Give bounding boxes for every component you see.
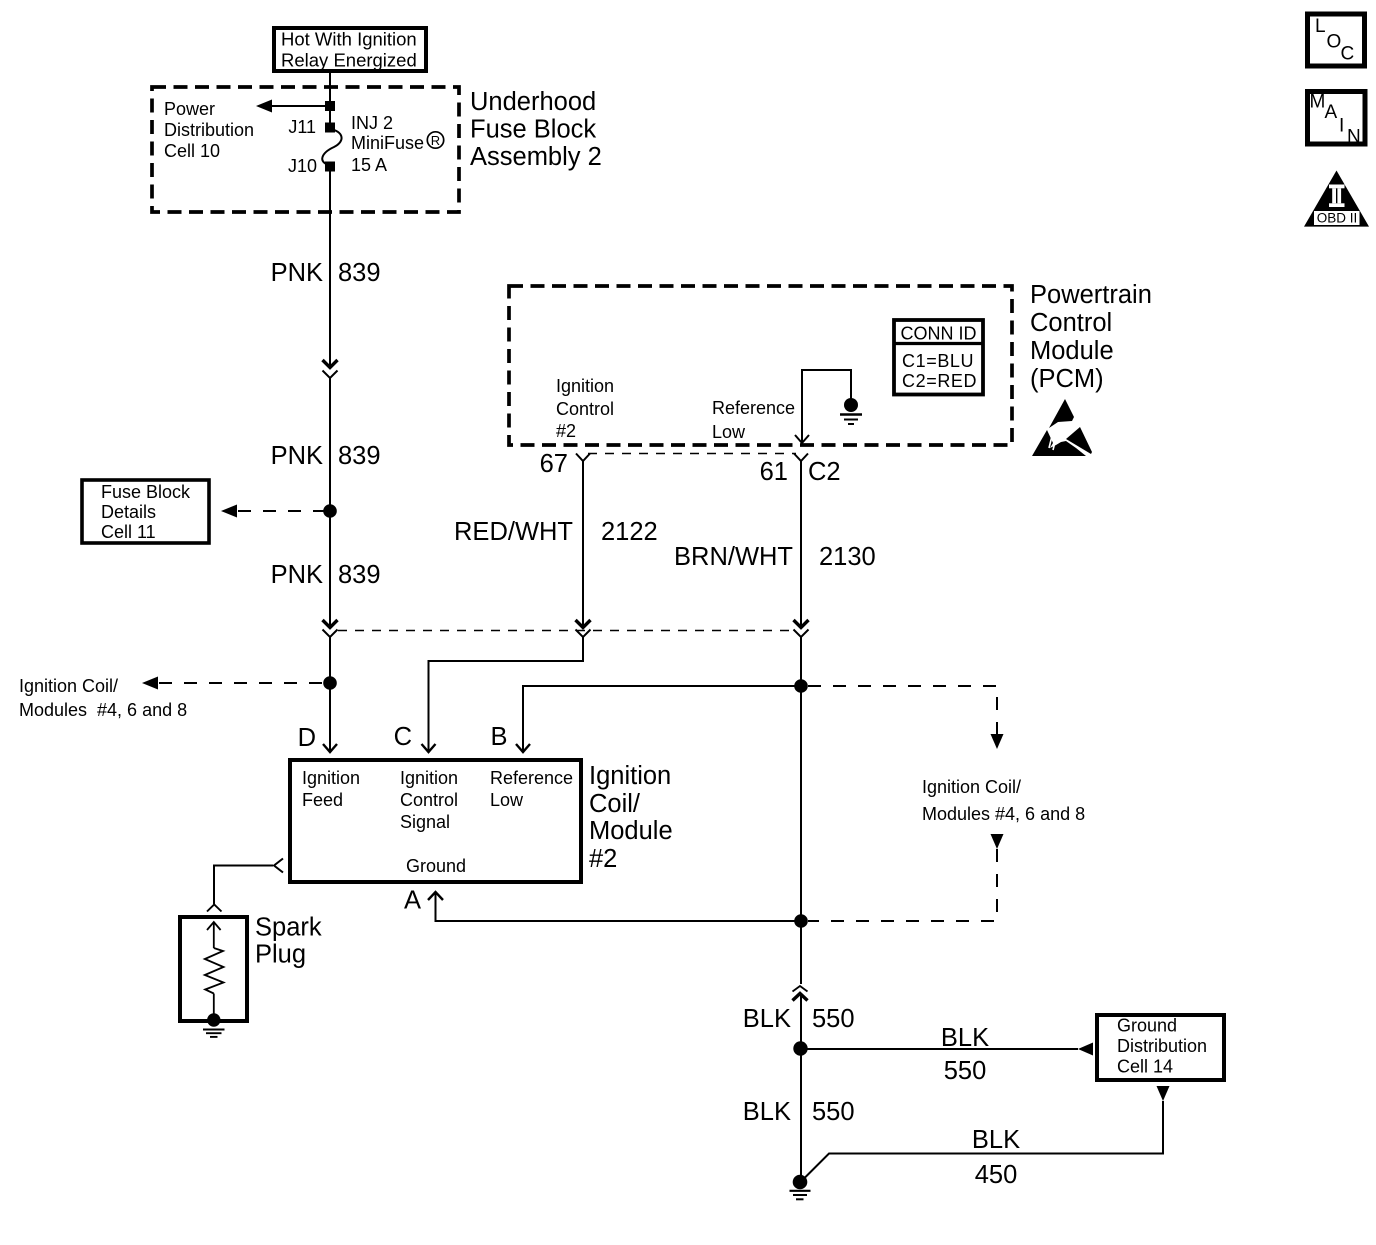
- dashed wire to fuse block details: [238, 510, 330, 512]
- svg-text:L: L: [1315, 16, 1326, 37]
- svg-text:D: D: [298, 724, 316, 752]
- inline connector chevron (female): [323, 371, 338, 379]
- svg-text:Distribution: Distribution: [1117, 1036, 1207, 1056]
- svg-text:Fuse Block: Fuse Block: [470, 116, 596, 144]
- inline connector chevron BRN/WHT: [794, 630, 809, 638]
- svg-text:Assembly 2: Assembly 2: [470, 143, 602, 171]
- svg-text:#2: #2: [589, 845, 617, 873]
- svg-text:PNK: PNK: [271, 442, 323, 470]
- wire from coil to spark plug: [214, 866, 273, 905]
- ESD symbol: [1049, 399, 1074, 428]
- svg-text:C: C: [394, 723, 412, 751]
- svg-text:Modules #4, 6 and 8: Modules #4, 6 and 8: [922, 804, 1085, 824]
- junction to ignition coil modules 4,6,8: [323, 676, 337, 690]
- svg-text:J11: J11: [288, 117, 316, 137]
- inline connector arrow BRN/WHT: [794, 620, 809, 628]
- svg-text:839: 839: [338, 259, 381, 287]
- inline connector chevron RED/WHT: [576, 630, 591, 638]
- LOC icon box: [1308, 14, 1365, 66]
- dashed wire down from modules text: [808, 849, 997, 921]
- terminal J11: [325, 123, 335, 133]
- pin B arrowhead: [516, 744, 530, 752]
- svg-text:Reference: Reference: [712, 398, 795, 418]
- svg-text:INJ 2: INJ 2: [351, 113, 393, 133]
- terminal J10: [325, 162, 335, 172]
- svg-text:PNK: PNK: [271, 561, 323, 589]
- svg-text:RED/WHT: RED/WHT: [454, 518, 573, 546]
- svg-text:Ignition: Ignition: [302, 768, 360, 788]
- svg-text:J10: J10: [288, 156, 317, 176]
- PCM internal ground dot: [844, 398, 858, 412]
- wire into pin D: [329, 683, 331, 752]
- wire branch to power distribution arrow: [270, 105, 330, 107]
- PCM internal reference low wire: [802, 370, 851, 443]
- svg-text:BLK: BLK: [972, 1126, 1020, 1154]
- svg-text:BLK: BLK: [941, 1024, 989, 1052]
- wire BRN/WHT junction to ground junction: [800, 686, 802, 921]
- wire BLK 550 down from A junction: [800, 921, 802, 984]
- ignition coil module 2 box: [290, 760, 581, 882]
- arrow to fuse block details: [221, 505, 237, 518]
- svg-text:C2: C2: [808, 458, 841, 486]
- OBD II icon triangle: [1304, 171, 1369, 227]
- svg-text:C: C: [1341, 44, 1355, 65]
- svg-text:O: O: [1327, 32, 1342, 53]
- wire PNK 839 from fuse down: [329, 166, 331, 367]
- svg-text:Underhood: Underhood: [470, 88, 596, 116]
- junction to fuse block details: [323, 504, 337, 518]
- svg-text:MiniFuse: MiniFuse: [351, 133, 424, 153]
- svg-text:BLK: BLK: [743, 1098, 791, 1126]
- inline connector arrow up: [793, 994, 808, 1001]
- inline harness dashed line: [338, 630, 794, 632]
- junction BRN/WHT at B branch: [794, 679, 808, 693]
- wire BRN/WHT down to junction: [800, 637, 802, 686]
- svg-text:B: B: [490, 723, 507, 751]
- svg-text:Distribution: Distribution: [164, 120, 254, 140]
- svg-text:67: 67: [540, 450, 568, 478]
- svg-text:C2=RED: C2=RED: [902, 371, 977, 391]
- svg-text:Cell 11: Cell 11: [101, 522, 156, 542]
- svg-text:Modules #4, 6 and 8: Modules #4, 6 and 8: [19, 700, 187, 720]
- CONN ID box: [894, 320, 983, 395]
- dashed wire right to modules 4,6,8: [808, 686, 997, 734]
- PCM internal ground symbol: [840, 413, 862, 416]
- junction at fuse top: [325, 101, 335, 111]
- wire RED/WHT 2122: [582, 461, 584, 627]
- spark plug connector chevron: [207, 905, 222, 912]
- junction BLK 550: [793, 1041, 807, 1055]
- svg-text:M: M: [1310, 92, 1326, 113]
- pin 61/C2 connector chevron: [794, 454, 808, 462]
- svg-text:(PCM): (PCM): [1030, 365, 1104, 393]
- underhood fuse block dashed box: [152, 87, 459, 212]
- svg-text:C1=BLU: C1=BLU: [902, 351, 974, 371]
- arrow to power distribution cell 10: [256, 100, 272, 113]
- fuse block details box: [82, 480, 209, 543]
- arrow down to modules text: [991, 734, 1004, 749]
- inline connector chevron up: [793, 986, 808, 992]
- svg-text:BRN/WHT: BRN/WHT: [674, 543, 793, 571]
- svg-text:PNK: PNK: [271, 259, 323, 287]
- spark plug resistor zigzag: [205, 948, 224, 994]
- svg-text:2122: 2122: [601, 518, 658, 546]
- svg-text:Ignition: Ignition: [400, 768, 458, 788]
- svg-text:Feed: Feed: [302, 790, 343, 810]
- svg-text:Low: Low: [490, 790, 524, 810]
- svg-text:550: 550: [812, 1098, 855, 1126]
- svg-text:OBD II: OBD II: [1317, 211, 1358, 226]
- svg-text:Cell 14: Cell 14: [1117, 1057, 1173, 1077]
- svg-text:CONN ID: CONN ID: [901, 324, 977, 344]
- svg-text:550: 550: [812, 1005, 855, 1033]
- svg-text:Control: Control: [556, 399, 614, 419]
- svg-text:2130: 2130: [819, 543, 876, 571]
- PCM connector dashed line: [588, 453, 796, 455]
- svg-text:61: 61: [760, 458, 788, 486]
- inline connector chevron at harness: [323, 630, 338, 638]
- spark plug electrode wire: [213, 922, 215, 948]
- svg-text:550: 550: [944, 1057, 987, 1085]
- wire PNK 839 segment 2: [329, 378, 331, 511]
- pin C arrowhead: [422, 744, 436, 752]
- svg-text:A: A: [1325, 102, 1338, 123]
- inline connector arrow at harness: [323, 620, 338, 628]
- arrow below ground distribution box: [1157, 1086, 1170, 1101]
- svg-text:Fuse Block: Fuse Block: [101, 482, 191, 502]
- svg-text:Reference: Reference: [490, 768, 573, 788]
- ground G103 dot: [793, 1175, 808, 1190]
- fuse INJ 2 element: [322, 129, 341, 165]
- svg-text:Control: Control: [1030, 309, 1112, 337]
- MAIN icon box: [1308, 92, 1366, 145]
- wire from hot box to fuse: [329, 71, 331, 127]
- PCM reference low arrowhead: [795, 435, 809, 443]
- svg-text:Ground: Ground: [1117, 1016, 1177, 1036]
- svg-text:Hot With Ignition: Hot With Ignition: [281, 29, 417, 50]
- svg-text:Signal: Signal: [400, 812, 450, 832]
- svg-text:Module: Module: [1030, 337, 1114, 365]
- pin A arrowhead: [428, 892, 443, 900]
- wire to pin B: [523, 686, 801, 752]
- svg-text:Control: Control: [400, 790, 458, 810]
- svg-text:I: I: [1339, 116, 1344, 137]
- svg-text:Ignition Coil/: Ignition Coil/: [19, 676, 118, 696]
- svg-text:Ignition: Ignition: [556, 376, 614, 396]
- svg-text:R: R: [431, 133, 440, 148]
- wire BRN/WHT 2130: [800, 461, 802, 627]
- spark plug arrow: [207, 922, 221, 930]
- svg-text:Details: Details: [101, 502, 156, 522]
- svg-text:839: 839: [338, 442, 381, 470]
- svg-text:Powertrain: Powertrain: [1030, 281, 1152, 309]
- spark plug ground dot: [207, 1013, 220, 1026]
- PCM dashed box: [509, 286, 1012, 445]
- svg-text:Ground: Ground: [406, 856, 466, 876]
- svg-text:Ignition: Ignition: [589, 762, 671, 790]
- inline connector arrow RED/WHT: [576, 620, 591, 628]
- svg-text:BLK: BLK: [743, 1005, 791, 1033]
- wire BLK 450: [805, 1101, 1164, 1178]
- wire PNK segment 4: [329, 637, 331, 683]
- ignition feed wire out left: [274, 859, 283, 873]
- wire BLK 550 to ground distribution: [801, 1048, 1078, 1050]
- wire BLK 550 lower: [800, 1048, 802, 1180]
- junction at A branch: [794, 914, 808, 928]
- svg-text:839: 839: [338, 561, 381, 589]
- spark plug lower wire: [213, 994, 215, 1020]
- pin D arrowhead: [323, 744, 337, 752]
- arrow down from modules text: [991, 834, 1004, 849]
- svg-text:N: N: [1347, 127, 1361, 148]
- svg-text:Coil/: Coil/: [589, 790, 641, 818]
- hot-with-ignition label box: [274, 28, 426, 71]
- arrow to ignition coil modules left: [142, 677, 158, 690]
- arrow at ground distribution box: [1078, 1043, 1093, 1056]
- inline connector arrow (male): [323, 360, 338, 368]
- wire PNK 839 segment 3: [329, 511, 331, 627]
- ground distribution cell 14 box: [1097, 1015, 1224, 1080]
- svg-text:15 A: 15 A: [351, 155, 387, 175]
- svg-text:Relay Energized: Relay Energized: [281, 50, 417, 71]
- svg-text:A: A: [404, 887, 421, 915]
- wire RED/WHT to pin C: [429, 637, 584, 752]
- wire BLK 550 to ground junction: [800, 993, 802, 1048]
- svg-text:450: 450: [975, 1161, 1018, 1189]
- spark plug ground symbol: [203, 1029, 225, 1031]
- svg-text:Ignition Coil/: Ignition Coil/: [922, 777, 1021, 797]
- svg-text:Power: Power: [164, 99, 215, 119]
- svg-text:Cell 10: Cell 10: [164, 141, 220, 161]
- wire to pin A: [436, 892, 802, 921]
- svg-text:Module: Module: [589, 817, 673, 845]
- svg-text:#2: #2: [556, 421, 576, 441]
- spark plug box: [180, 917, 247, 1021]
- dashed wire to ignition coil modules left: [159, 682, 330, 684]
- pin 67 connector chevron: [576, 454, 590, 462]
- svg-text:Plug: Plug: [255, 941, 306, 969]
- svg-text:Spark: Spark: [255, 914, 322, 942]
- ground G103 symbol: [790, 1190, 811, 1192]
- svg-text:Low: Low: [712, 422, 746, 442]
